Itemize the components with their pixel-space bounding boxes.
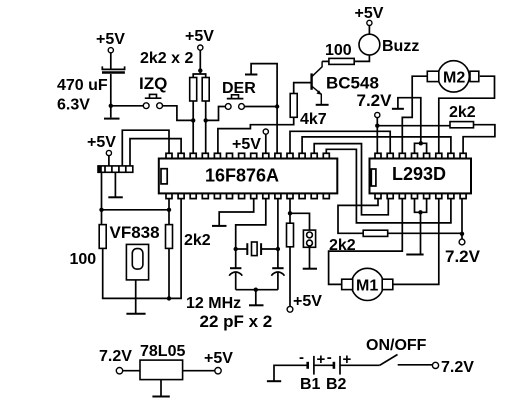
wire p1b to 2k2 left — [338, 199, 378, 234]
wire header sq3 to ground — [114, 172, 116, 196]
wire B1 to B2 — [314, 364, 333, 366]
wire — [368, 26, 370, 35]
IC U2 bottom pins — [375, 193, 466, 198]
wire header sq5 to pin t2 — [130, 139, 181, 166]
crystal X1 12MHz — [236, 242, 278, 256]
node junction 2k2 tops — [198, 68, 202, 72]
resistor R 4k7 — [290, 94, 297, 118]
wire header sq4 to pin t1 — [122, 130, 169, 166]
ground (b8) — [212, 225, 227, 227]
wire jack to ground — [309, 247, 311, 268]
ground (top stub) — [245, 74, 257, 76]
wire regulator ground stem — [160, 380, 162, 396]
resistor R 2k2 (VF) — [166, 225, 173, 249]
wire — [110, 74, 112, 118]
pushbutton DER — [225, 95, 244, 110]
output terminal circle — [215, 368, 221, 374]
wire — [122, 370, 140, 372]
wire left branch down — [101, 210, 103, 225]
svg-text:7.2V: 7.2V — [445, 247, 481, 266]
node junction 2k2-right/DER — [204, 118, 208, 122]
wire 2k2 right to 7.2V node — [388, 232, 462, 234]
capacitor C2 22pF — [229, 249, 242, 290]
node junction 7.2V rail — [375, 124, 379, 128]
regulator 78L05 — [140, 360, 183, 380]
wire resistor to +5V — [289, 247, 291, 307]
svg-text:-: - — [299, 349, 304, 366]
svg-text:DER: DER — [222, 80, 256, 97]
wire — [183, 370, 216, 372]
IC U1 top pins — [166, 153, 329, 158]
svg-text:VF838: VF838 — [110, 223, 160, 242]
IC U2 L293D body — [370, 159, 472, 194]
wire b9 to crystal left — [236, 199, 266, 249]
wire 2k2 bottom — [168, 248, 170, 298]
svg-text:100: 100 — [70, 251, 97, 268]
svg-text:7.2V: 7.2V — [357, 91, 393, 110]
svg-text:2k2: 2k2 — [449, 104, 476, 121]
IC U1 bottom pins — [166, 193, 329, 198]
wire R-left to t3 — [192, 101, 194, 153]
svg-text:+5V: +5V — [293, 293, 322, 310]
svg-text:+5V: +5V — [96, 31, 125, 48]
wire rail R2: t12 to p7t — [302, 137, 451, 153]
wire rail header/b1 — [102, 209, 170, 211]
wire to IZQ — [111, 105, 144, 107]
wire DER left to node t4 — [206, 107, 226, 121]
wire 100 bottom to rail — [103, 248, 136, 298]
resistor R 2k2 (M2 enable) — [450, 122, 474, 128]
node junction left — [99, 208, 103, 212]
wire R-right to t4 — [205, 101, 207, 153]
wire b11 branch to jack — [290, 213, 310, 230]
wire DER right to junction — [244, 106, 277, 108]
wire M2 right to pin p6t — [439, 76, 495, 153]
wire bridge to resistor tops — [193, 74, 206, 78]
switch ON/OFF blade — [380, 355, 398, 366]
capacitor C1 470uF top plate — [102, 66, 124, 69]
wire t9 to +5V — [265, 134, 267, 153]
wire 2k2 right wrap to pin p8t — [463, 125, 495, 154]
wire junction up and to top stub — [251, 64, 277, 107]
IC U1 16F876A body — [159, 159, 337, 194]
transistor Q1 collector — [312, 61, 323, 76]
svg-text:2k2: 2k2 — [184, 232, 211, 249]
battery B2 — [326, 349, 352, 393]
svg-text:L293D: L293D — [392, 164, 446, 184]
ground (header) — [108, 196, 123, 198]
wire M1 right to p6b — [393, 199, 439, 285]
wire bridge pins 4b,5b — [415, 199, 427, 213]
wire +5V to header — [108, 156, 110, 166]
svg-text:12 MHz: 12 MHz — [186, 295, 241, 312]
svg-text:-: - — [327, 349, 332, 366]
ground — [104, 118, 120, 120]
node junction crystal right — [276, 247, 280, 251]
input terminal circle — [116, 368, 122, 374]
+5V supply terminal (over 470uF) — [96, 31, 125, 53]
ground (jack) — [303, 268, 317, 270]
wire rail R3: t13 to p2b — [314, 144, 388, 215]
node junction 7.2V — [460, 232, 464, 236]
ground (L293D top, pins 4/5) — [392, 98, 421, 144]
capacitor C3 22pF — [272, 249, 285, 290]
svg-text:B1: B1 — [300, 376, 321, 393]
wire bridge pins 4t,5t — [415, 143, 427, 153]
svg-text:7.2V: 7.2V — [441, 359, 474, 376]
wire header sq1 down — [101, 172, 103, 210]
resistor R 2k2 (left) — [190, 78, 197, 102]
7.2V supply terminal (bottom) — [445, 239, 481, 266]
svg-text:16F876A: 16F876A — [205, 165, 279, 185]
pushbutton IZQ — [143, 94, 162, 108]
svg-text:78L05: 78L05 — [140, 343, 185, 360]
motor M1 — [342, 268, 393, 300]
wire ground rail — [236, 289, 278, 291]
7.2V supply terminal (L293D) — [357, 91, 393, 118]
wire VF leg — [135, 280, 137, 313]
node junction rail — [254, 288, 258, 292]
wire M2 left to pin p3t — [402, 76, 427, 153]
connector J1 (2-circle jack) — [303, 230, 315, 247]
wire p3b to M1 left — [329, 199, 403, 285]
wire IZQ to node t3 — [163, 106, 194, 121]
wire 7.2V to pin p1t — [376, 118, 378, 154]
node junction top 4/5 bridge — [419, 141, 423, 145]
wire 4k7 top to Q1 base — [294, 83, 311, 94]
wire resistor to buzzer — [354, 55, 369, 61]
connector ICSP header — [98, 166, 133, 172]
svg-text:+5V: +5V — [185, 28, 214, 45]
resistor R 2k2 (M1 enable) — [363, 230, 388, 236]
ground (battery) — [267, 380, 281, 382]
wire b1 down — [168, 199, 170, 225]
emitter arrowhead — [316, 90, 321, 94]
chips — [159, 153, 471, 198]
wire b8 to ground — [219, 199, 254, 226]
ground (emitter) — [316, 104, 329, 106]
wire battery left hook — [274, 365, 307, 380]
wire rail R1: t11 to p2t — [290, 131, 390, 153]
7.2V supply terminal (switch) — [432, 359, 474, 376]
svg-text:22 pF x 2: 22 pF x 2 — [200, 312, 273, 331]
resistor R 100 (buzzer) — [329, 58, 354, 64]
ground (VF) — [126, 313, 145, 315]
+5V supply terminal (buzzer) — [355, 5, 384, 25]
wire stem — [255, 290, 257, 305]
IC U2 top pins — [375, 153, 466, 158]
node junction b11 — [288, 211, 292, 215]
svg-text:M2: M2 — [443, 70, 465, 87]
wire B2 to switch — [340, 364, 380, 366]
transistor Q1 BC548 base bar — [310, 73, 312, 89]
wire 4k7 bottom jog to pin t5 — [218, 117, 294, 153]
wire rail to b2 — [136, 199, 181, 299]
ground (crystal) — [249, 304, 264, 306]
transistor Q1 emitter — [312, 86, 322, 104]
wire — [110, 53, 112, 69]
node junction b1 — [167, 208, 171, 212]
+5V supply terminal (bottom) — [287, 293, 322, 312]
svg-text:6.3V: 6.3V — [57, 97, 90, 114]
wire rail R4: t14 to p7b — [326, 149, 451, 223]
ground (L293D bottom) — [406, 254, 423, 256]
capacitor C1 bottom plate — [102, 71, 125, 74]
+5V supply terminal (header) — [87, 134, 116, 156]
svg-text:BC548: BC548 — [326, 74, 379, 93]
wire switch to terminal — [398, 364, 433, 366]
node junction 2k2-left/IZQ — [191, 118, 195, 122]
svg-text:+5V: +5V — [232, 136, 261, 153]
node junction crystal left — [234, 247, 238, 251]
resistor R 100 (VF) — [99, 225, 106, 249]
svg-text:7.2V: 7.2V — [99, 348, 132, 365]
+5V supply terminal (over 2k2 x 2) — [185, 28, 214, 50]
svg-text:IZQ: IZQ — [139, 74, 167, 93]
node junction DER/t10 — [275, 104, 279, 108]
sensor VF838 body — [126, 244, 148, 280]
node junction 2k2/rail — [167, 296, 171, 300]
resistor R 2k2 (right) — [202, 78, 209, 102]
svg-text:ON/OFF: ON/OFF — [366, 337, 427, 354]
battery B1 — [299, 349, 326, 393]
+5V supply terminal (MCU t9) — [232, 129, 268, 153]
svg-text:100: 100 — [325, 42, 352, 59]
wire junction down to pin t10 — [276, 107, 278, 154]
svg-text:+5V: +5V — [87, 134, 116, 151]
ground (78L05) — [152, 396, 169, 398]
wire 7.2V rail to 2k2 left — [377, 125, 450, 127]
wire collector to 100 resistor — [322, 60, 329, 62]
resistor R (b11 pull) — [287, 223, 294, 247]
svg-text:+5V: +5V — [204, 350, 233, 367]
svg-text:Buzz: Buzz — [382, 38, 419, 55]
wire b11 down — [289, 199, 291, 224]
svg-text:2k2 x 2: 2k2 x 2 — [140, 50, 193, 67]
svg-text:M1: M1 — [356, 278, 378, 295]
wire p8b down — [461, 199, 463, 240]
svg-text:470 uF: 470 uF — [57, 77, 108, 94]
wire — [199, 50, 201, 74]
svg-text:B2: B2 — [326, 376, 347, 393]
wire b10 to crystal right — [277, 199, 279, 249]
node junction bottom 4/5 bridge — [418, 210, 422, 214]
wire bridge to ground — [420, 212, 422, 254]
motor M2 — [427, 61, 479, 92]
node junction cap/IZQ — [109, 104, 113, 108]
svg-text:4k7: 4k7 — [300, 111, 327, 128]
buzzer Buzz — [359, 34, 380, 55]
